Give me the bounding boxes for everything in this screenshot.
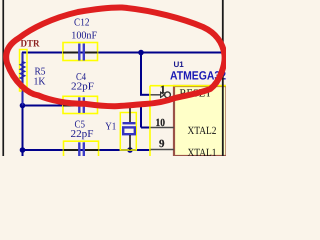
crystal Y1 (vertical, between XTAL2 and XTAL1 nets) <box>120 106 136 151</box>
junction: R5 bottom / C4 wire <box>20 103 26 109</box>
wire: short horizontal into RESET pin <box>140 94 151 96</box>
svg-text:1K: 1K <box>34 77 46 88</box>
junction: DTR net to RESET drop <box>138 50 144 56</box>
capacitor C4 (horizontal, XTAL2 branch) <box>63 96 98 113</box>
svg-text:10: 10 <box>156 117 166 129</box>
junction: crystal Y1 bottom lead on XTAL1 wire <box>127 147 133 153</box>
wire: vertical drop from junction to RESET pin <box>140 53 142 95</box>
wire: XTAL2 net horizontal into pin 10 <box>141 127 151 129</box>
U1 yellow selection box (left and top edges) <box>150 86 226 156</box>
svg-text:22pF: 22pF <box>71 82 94 93</box>
capacitor C12 (horizontal, in series with DTR wire) <box>63 43 98 61</box>
junction: left rail / C5 wire <box>20 147 26 153</box>
sheet border line right <box>222 0 224 156</box>
resistor R5 (vertical zigzag with yellow selection box) <box>20 50 28 106</box>
svg-text:22pF: 22pF <box>71 129 94 140</box>
IC U1 body (ATMEGA32, partially visible) <box>174 86 227 156</box>
wire: XTAL1 net horizontal through C5 to pin 9 <box>23 149 152 151</box>
red annotation ellipse (hand-drawn highlight circle) <box>6 7 224 106</box>
svg-text:C12: C12 <box>74 17 90 28</box>
sheet border line left <box>2 0 4 156</box>
svg-text:Y1: Y1 <box>105 121 116 132</box>
wire: DTR net, horizontal from DTR port through C12 to top-right <box>22 52 226 54</box>
svg-text:100nF: 100nF <box>71 30 97 41</box>
svg-text:1: 1 <box>160 84 166 96</box>
wire: horizontal through C4 to crystal top / XTAL2 <box>23 105 142 107</box>
pin 9 XTAL1 <box>151 149 175 151</box>
svg-text:XTAL1: XTAL1 <box>188 147 217 156</box>
wire: XTAL2 net vertical segment <box>140 106 142 128</box>
svg-text:DTR: DTR <box>21 39 41 50</box>
pin 10 XTAL2 <box>151 127 175 129</box>
pin 1 RESET (with inversion bubble) <box>151 92 171 98</box>
svg-text:XTAL2: XTAL2 <box>188 125 217 137</box>
capacitor C5 (horizontal, XTAL1 branch) <box>64 141 99 159</box>
wire: left vertical rail through R5 down off-sheet <box>22 53 24 157</box>
svg-text:9: 9 <box>159 138 165 150</box>
